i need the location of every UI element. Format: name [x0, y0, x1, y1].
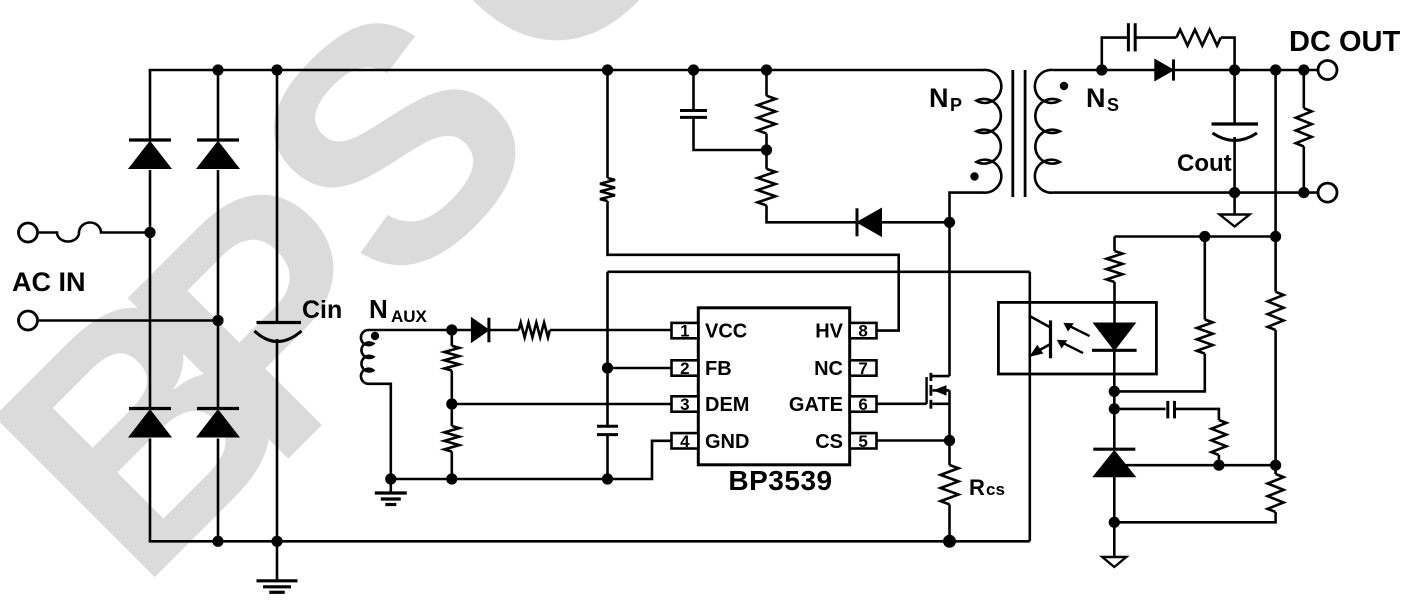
NS label: [1086, 83, 1119, 115]
svg-text:BP3539: BP3539: [728, 465, 832, 496]
resistor divider lower: [1268, 474, 1284, 512]
capacitor comp: [1168, 401, 1175, 419]
node clamp cap top: [688, 64, 699, 75]
svg-text:P: P: [950, 95, 962, 115]
node aux return: [385, 473, 396, 484]
diode output rectifier: [1155, 59, 1174, 80]
svg-text:Cout: Cout: [1177, 150, 1232, 177]
pin 3 box: [672, 395, 699, 414]
resistor aux divider lower: [444, 426, 459, 452]
wire FB top line: [608, 270, 1030, 273]
resistor aux divider upper: [444, 346, 459, 371]
NS phase dot: [1060, 82, 1068, 90]
wire clamp diode to drain: [882, 221, 950, 224]
node DEM tap: [446, 398, 457, 409]
node Cout bottom: [1229, 187, 1240, 198]
svg-text:6: 6: [858, 395, 867, 414]
node bias res top: [1199, 231, 1210, 242]
wire FB column: [606, 272, 609, 479]
svg-text:N: N: [929, 83, 949, 113]
wire opto LED column: [1113, 237, 1116, 450]
AC input terminal bottom: [19, 311, 38, 330]
node comp upper: [1109, 386, 1120, 397]
node drain clamp junction: [944, 217, 955, 228]
wire drain column: [948, 222, 951, 376]
AC IN label: [12, 267, 86, 297]
wire clamp res branch: [767, 70, 858, 222]
resistor Rcs: [941, 465, 959, 504]
ground secondary: [1220, 193, 1250, 227]
svg-text:8: 8: [858, 322, 867, 341]
transistor Q1 MOSFET: [927, 373, 950, 441]
optocoupler light arrows: [1058, 323, 1090, 353]
node leg2 bottom: [212, 536, 223, 547]
svg-text:CS: CS: [815, 431, 843, 453]
AC input terminal top: [19, 223, 38, 242]
svg-text:AC IN: AC IN: [12, 267, 86, 297]
svg-text:2: 2: [680, 359, 689, 378]
svg-text:VCC: VCC: [705, 321, 747, 343]
capacitor clamp: [680, 111, 707, 118]
ground secondary 2: [1102, 557, 1126, 567]
svg-text:cs: cs: [986, 480, 1005, 499]
Cin label: [302, 296, 342, 324]
wire CS to Rcs: [948, 441, 951, 466]
resistor opto series: [1107, 251, 1123, 282]
wire bottom primary rail: [149, 540, 1030, 543]
node neutral-bridge junction: [212, 315, 223, 326]
pin label DEM: [705, 394, 749, 416]
decorative watermark (not labelled further): [0, 0, 762, 613]
node fuse-bridge junction: [144, 227, 155, 238]
Cout label: [1177, 150, 1232, 177]
NAUX phase dot: [371, 332, 379, 340]
node FB: [602, 362, 613, 373]
diode D3: [129, 409, 171, 438]
wire vout sense line: [1115, 235, 1276, 238]
svg-text:N: N: [1086, 83, 1106, 113]
wire Cin branch: [276, 70, 279, 541]
NP phase dot: [970, 172, 978, 180]
wire comp to ref: [1218, 455, 1221, 465]
pin 5 box: [850, 432, 877, 451]
wire bias res column: [1114, 237, 1205, 392]
node divider mid: [1270, 231, 1281, 242]
pin label GND: [705, 431, 749, 453]
wire divider column: [1115, 70, 1276, 522]
svg-text:5: 5: [858, 432, 867, 451]
wire IC ground rail: [391, 441, 672, 479]
Rcs label: [969, 475, 1005, 500]
DC OUT label: [1289, 26, 1400, 58]
wire Cout branch: [1233, 70, 1236, 193]
node leg2 top: [212, 64, 223, 75]
node aux top: [446, 324, 457, 335]
svg-text:HV: HV: [815, 321, 843, 343]
resistor HV startup: [600, 178, 615, 201]
wire bridge leg1: [149, 70, 152, 541]
resistor divider upper: [1268, 292, 1284, 330]
wire Rcs bottom: [948, 504, 951, 541]
wire resistor to VCC pin: [550, 329, 672, 332]
NAUX label: [369, 294, 428, 326]
svg-text:NC: NC: [814, 358, 843, 380]
transformer core: [1013, 70, 1025, 197]
DC OUT terminal top: [1318, 61, 1337, 80]
ground IC: [375, 479, 407, 505]
svg-text:GND: GND: [705, 431, 749, 453]
node TL431 anode: [1109, 517, 1120, 528]
node Rcs gnd: [943, 535, 956, 548]
optocoupler phototransistor: [1030, 272, 1051, 542]
svg-text:GATE: GATE: [789, 394, 843, 416]
shunt regulator TL431: [1093, 449, 1135, 477]
node Cout top: [1229, 64, 1240, 75]
node divider top: [1270, 64, 1281, 75]
inductor NS secondary: [1035, 70, 1060, 193]
capacitor FB filter: [597, 426, 618, 434]
op-amp U1 BP3539 body: [698, 308, 849, 465]
node CS: [944, 435, 955, 446]
pin label HV: [815, 321, 843, 343]
svg-text:7: 7: [858, 359, 867, 378]
diode D4: [197, 409, 239, 438]
pin 7 box: [850, 359, 877, 378]
wire AC neutral to bridge: [38, 319, 219, 322]
node clamp res top: [761, 64, 772, 75]
wire load branch: [1303, 70, 1306, 193]
optocoupler LED: [1092, 323, 1137, 350]
wire aux to diode: [452, 329, 472, 332]
fuse F1: [38, 223, 151, 242]
optocoupler U2 box: [998, 302, 1156, 374]
svg-text:N: N: [369, 294, 388, 324]
pin label FB: [705, 358, 732, 380]
node ref right: [1270, 460, 1281, 471]
resistor clamp lower: [758, 169, 776, 206]
diode clamp: [857, 208, 882, 236]
node sec snubber left: [1096, 64, 1107, 75]
node load top: [1298, 64, 1309, 75]
svg-text:S: S: [1107, 95, 1119, 115]
inductor NAUX winding: [361, 330, 452, 479]
NP label: [929, 83, 962, 115]
node load bottom: [1298, 187, 1309, 198]
resistor bias: [1197, 320, 1213, 354]
diode Daux: [471, 318, 489, 343]
node clamp mid: [761, 144, 772, 155]
node Cin top: [271, 64, 282, 75]
resistor load: [1296, 108, 1312, 146]
pin 1 box: [672, 322, 699, 341]
U1 label BP3539: [728, 465, 832, 496]
wire gate: [876, 402, 926, 405]
wire TL431 gnd stub: [1113, 522, 1116, 557]
svg-text:4: 4: [680, 432, 690, 451]
wire DEM line: [452, 403, 672, 406]
node HV rail tap: [602, 64, 613, 75]
wire sec snubber: [1102, 38, 1235, 70]
svg-text:3: 3: [680, 395, 689, 414]
wire bridge leg2: [217, 70, 220, 541]
wire comp cap line: [1114, 409, 1219, 420]
svg-text:Cin: Cin: [302, 296, 342, 324]
pin label CS: [815, 431, 843, 453]
wire CS line: [876, 439, 949, 442]
capacitor Cin: [255, 323, 302, 342]
pin label GATE: [789, 394, 843, 416]
diode D1: [129, 140, 171, 169]
resistor comp: [1211, 420, 1226, 455]
node Cin bottom: [271, 536, 282, 547]
wire diode to resistor: [489, 329, 518, 332]
ground primary: [257, 541, 298, 592]
capacitor Cout: [1212, 124, 1259, 141]
wire FB to pin2: [608, 367, 672, 370]
wire top HV rail: [149, 69, 984, 72]
resistor clamp upper: [758, 96, 776, 134]
svg-text:DC OUT: DC OUT: [1289, 26, 1400, 58]
inductor NP primary: [950, 70, 1002, 222]
node comp ref: [1213, 460, 1224, 471]
node cap bottom: [602, 473, 613, 484]
pin 2 box: [672, 359, 699, 378]
node divider bottom: [446, 473, 457, 484]
pin 6 box: [850, 395, 877, 414]
wire secondary top: [1053, 69, 1317, 72]
wire HV branch upper: [606, 70, 609, 178]
wire secondary bottom rail: [1053, 191, 1318, 194]
pin label VCC: [705, 321, 747, 343]
svg-text:DEM: DEM: [705, 394, 749, 416]
resistor Rvcc: [519, 323, 550, 338]
wire ref line: [1122, 464, 1276, 467]
svg-text:FB: FB: [705, 358, 732, 380]
pin 8 box: [850, 322, 877, 341]
wire aux divider: [450, 330, 453, 479]
wire HV branch to pin8: [608, 201, 899, 331]
wire clamp cap branch: [694, 70, 767, 150]
resistor sec snubber: [1176, 30, 1220, 46]
node comp lower: [1109, 403, 1120, 414]
diode D2: [197, 140, 239, 169]
DC OUT terminal bottom: [1318, 183, 1337, 202]
svg-text:1: 1: [680, 322, 689, 341]
pin label NC: [814, 358, 843, 380]
capacitor sec snubber: [1128, 23, 1135, 51]
pin 4 box: [672, 432, 699, 451]
svg-text:AUX: AUX: [391, 307, 428, 326]
svg-text:R: R: [969, 475, 985, 500]
wire TL431 anode: [1113, 477, 1116, 522]
